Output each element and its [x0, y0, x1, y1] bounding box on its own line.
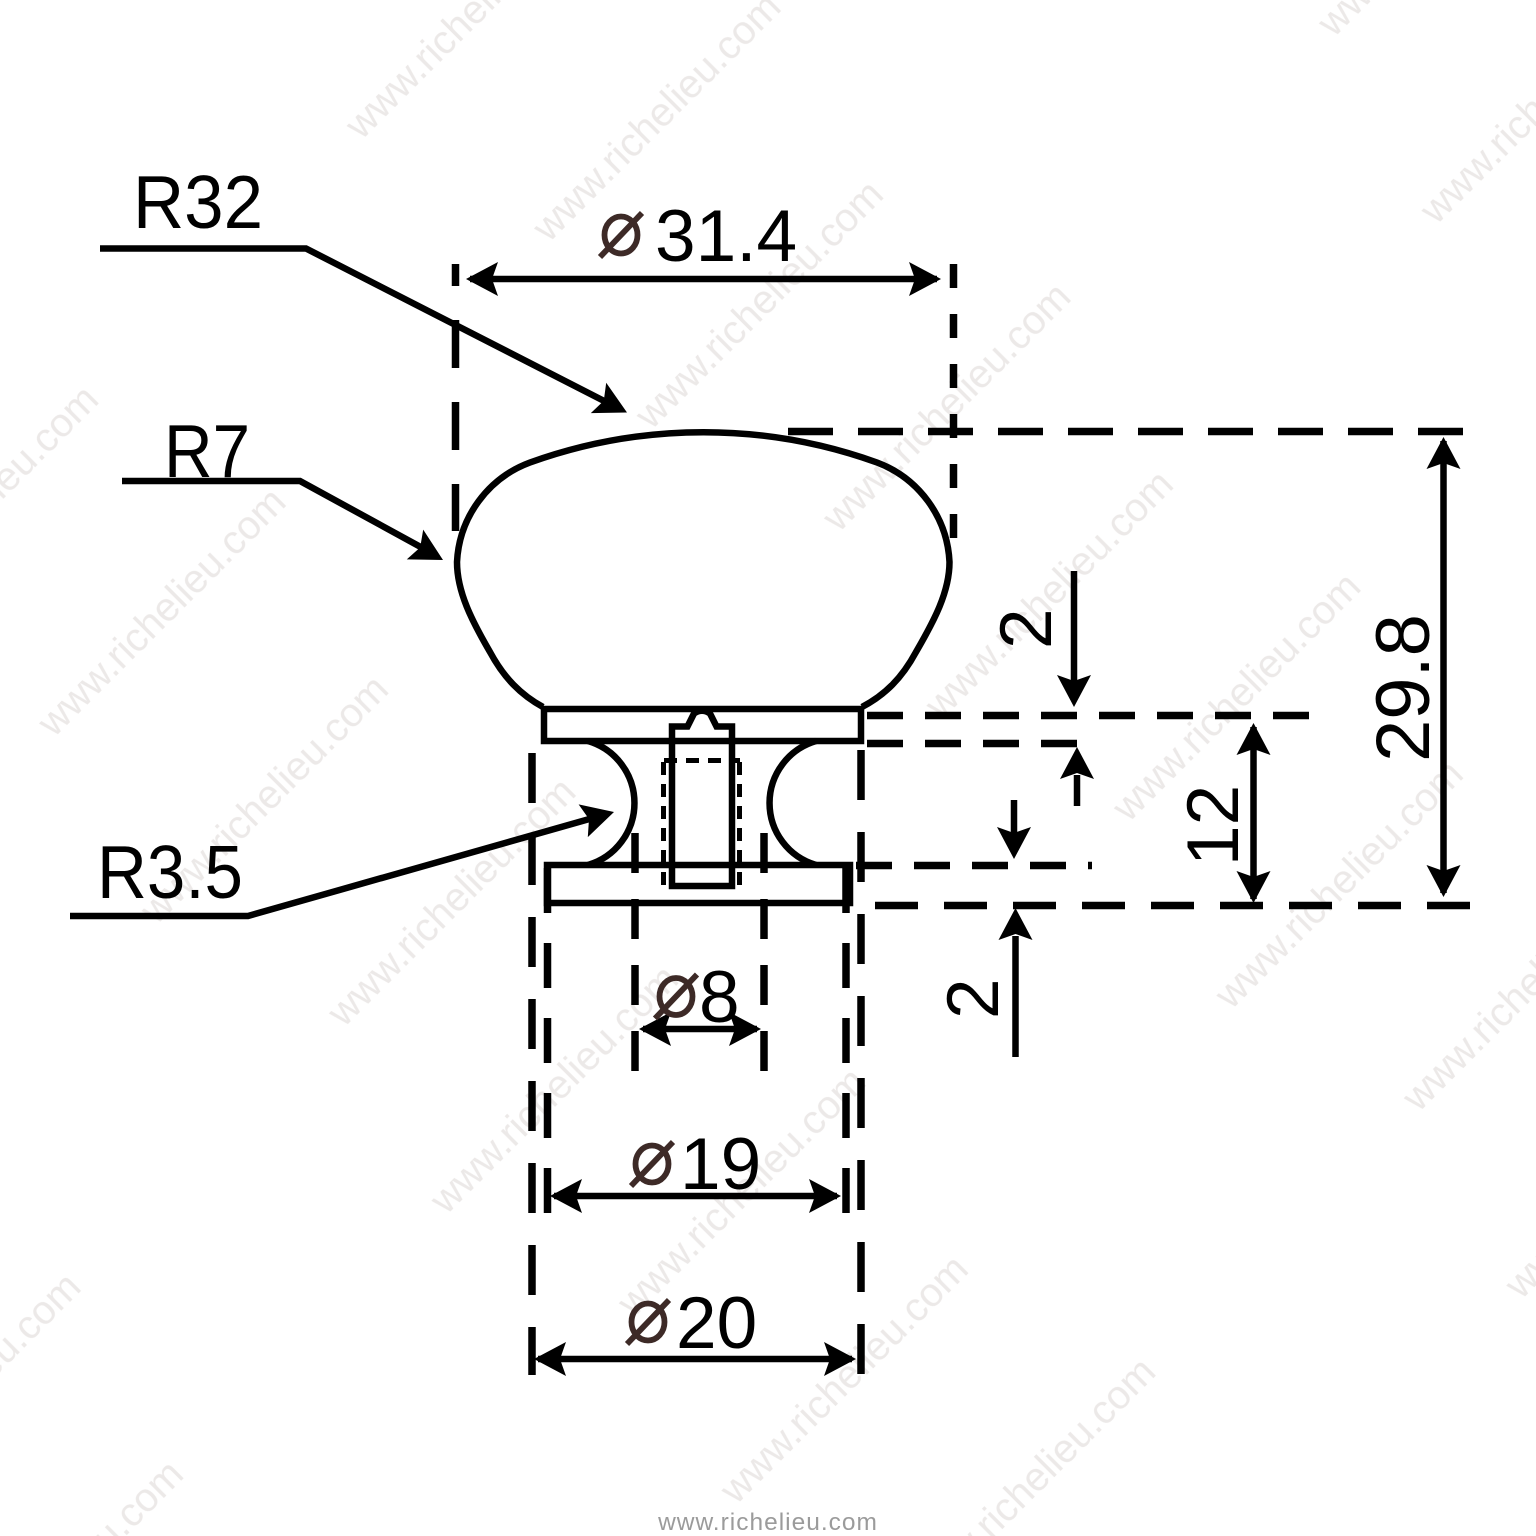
svg-text:2: 2: [986, 608, 1067, 649]
svg-text:R32: R32: [133, 160, 263, 244]
svg-text:12: 12: [1173, 785, 1254, 866]
svg-text:20: 20: [676, 1283, 757, 1364]
svg-text:R3.5: R3.5: [97, 830, 243, 914]
svg-text:8: 8: [699, 957, 740, 1038]
svg-text:31.4: 31.4: [655, 196, 797, 277]
svg-text:www.richelieu.com: www.richelieu.com: [657, 1509, 878, 1536]
svg-text:R7: R7: [164, 409, 250, 493]
svg-text:2: 2: [933, 978, 1014, 1019]
svg-text:29.8: 29.8: [1361, 614, 1446, 762]
svg-text:19: 19: [680, 1124, 761, 1205]
